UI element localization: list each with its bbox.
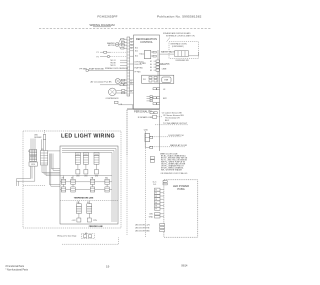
svg-text:P1: P1: [155, 190, 157, 192]
svg-text:* Non-functional Parts: * Non-functional Parts: [6, 268, 29, 271]
svg-text:Thermistor(s) OR: Thermistor(s) OR: [165, 117, 180, 120]
pcba top pins D1 D2: [153, 181, 167, 186]
temperature line pair P22: [90, 179, 109, 184]
header separator dashed rule: [39, 28, 211, 30]
svg-text:DISPENSER SW: DISPENSER SW: [176, 60, 189, 62]
svg-text:FRESH FOOD SENSOR: FRESH FOOD SENSOR: [105, 68, 128, 70]
svg-text:BK-2: BK-2: [165, 120, 169, 122]
line voltage wire row: [115, 101, 134, 109]
air circulation fan M2: [91, 79, 128, 84]
svg-text:# Functional Parts: # Functional Parts: [6, 265, 25, 268]
speaker and display pointer note: [163, 32, 195, 42]
svg-text:19: 19: [106, 265, 110, 269]
svg-text:EVAP SENS BK: EVAP SENS BK: [89, 67, 105, 70]
svg-text:B10: B10: [135, 47, 138, 49]
cabinet door dashed divider: [126, 110, 128, 235]
svg-text:P1: P1: [97, 52, 99, 54]
door switch net: [145, 133, 184, 141]
svg-text:P2: P2: [97, 56, 99, 58]
personality board U3: [127, 110, 163, 155]
header wiring diagram title: [89, 23, 115, 27]
water outlet dashed net: [155, 122, 188, 125]
svg-text:On Cabinet Sensors BK: On Cabinet Sensors BK: [162, 111, 183, 114]
connector strip J2 pins: [127, 79, 134, 94]
wire harness damper motor to connector J1: [118, 38, 127, 49]
board internal stub pins: [147, 96, 160, 105]
cabinet thermistor labels: [150, 111, 184, 122]
svg-text:PERSONALITY: PERSONALITY: [134, 110, 152, 114]
footer functional parts note: [6, 265, 29, 271]
freezer module top stubs: [79, 201, 89, 204]
svg-text:CONTROL: CONTROL: [140, 40, 153, 44]
svg-text:DOOR SWITCH: DOOR SWITCH: [168, 135, 184, 137]
svg-text:DRIVER: DRIVER: [34, 137, 42, 139]
svg-text:EMI: EMI: [165, 80, 169, 82]
svg-text:TH1 GY: TH1 GY: [110, 60, 117, 62]
svg-text:FGHS2655PF: FGHS2655PF: [97, 15, 117, 19]
svg-text:B4: B4: [150, 64, 152, 66]
connector labels: [28, 149, 44, 153]
wire color legend notes: [150, 153, 188, 171]
led driver A1: [34, 130, 46, 139]
connector P11 striped: [29, 150, 37, 167]
svg-text:B14: B14: [135, 55, 138, 57]
freezer module labels: [77, 202, 89, 204]
svg-text:WATER AT DOOR: WATER AT DOOR: [170, 144, 188, 147]
svg-text:ON FREEZER DOOR PCBA LED: ON FREEZER DOOR PCBA LED: [161, 172, 188, 175]
svg-text:WH - W/ WHITE TRACER: WH - W/ WHITE TRACER: [161, 168, 183, 171]
led board inner box: [60, 146, 118, 224]
bottom page dashed separator: [62, 237, 119, 244]
evaporator fan wire row: [100, 84, 127, 86]
svg-text:YL: YL: [130, 80, 132, 82]
svg-text:IF BOARD USED: IF BOARD USED: [138, 116, 155, 119]
refrigeration control board U1: [134, 35, 160, 109]
svg-text:LED DOOR RTN: LED DOOR RTN: [135, 228, 150, 230]
svg-text:SPEAKER AND DISPLAY BOARD: SPEAKER AND DISPLAY BOARD: [163, 32, 191, 35]
svg-text:B12: B12: [135, 50, 138, 52]
svg-text:BK: BK: [71, 178, 73, 180]
svg-text:COMPRESSOR: COMPRESSOR: [106, 98, 120, 100]
svg-text:SP01: SP01: [31, 164, 35, 166]
svg-text:Wiring on frz door hinge: Wiring on frz door hinge: [57, 236, 76, 238]
svg-text:P5: P5: [155, 202, 157, 204]
pair vertical stub wires: [64, 176, 108, 187]
led power pcba U4: [161, 172, 198, 237]
temperature line pair P23: [61, 187, 75, 192]
pcba mid pins: [149, 213, 164, 219]
defrost thermostat S1: [97, 51, 128, 54]
svg-text:LED: LED: [149, 213, 153, 215]
aux stub rows at strip: [110, 60, 127, 67]
led light wiring dashed enclosure: [23, 131, 121, 228]
freezer led module DL4: [72, 204, 82, 222]
svg-text:PCBA: PCBA: [177, 187, 185, 191]
svg-text:B8: B8: [150, 70, 152, 72]
temperature pair labels: [62, 178, 108, 180]
svg-text:TH3 PU: TH3 PU: [110, 65, 117, 67]
power input filter module FL1: [142, 75, 174, 83]
node U06 branch wires: [144, 129, 153, 148]
defrost heater wire: [97, 55, 128, 58]
svg-text:FF FAN: FF FAN: [135, 70, 142, 73]
connector P12 striped: [41, 151, 48, 166]
svg-text:TH2 BR: TH2 BR: [110, 62, 117, 64]
svg-text:P7: P7: [155, 209, 157, 211]
wires from connectors down to bus: [31, 151, 113, 186]
relay K1 inside control: [140, 50, 157, 58]
svg-text:TEMPERATURE LINE: TEMPERATURE LINE: [74, 197, 94, 200]
wire bundle driver to connectors: [31, 139, 46, 151]
compressor M3: [106, 88, 127, 100]
board inner edge wire: [157, 50, 159, 83]
damper motor M1: [107, 42, 119, 47]
led module DL3: [94, 153, 99, 178]
svg-text:GND: GND: [149, 216, 154, 218]
door harness connector P31: [57, 234, 96, 241]
svg-text:FF Sensor Harness WH: FF Sensor Harness WH: [164, 114, 185, 117]
svg-text:FREEZER LINE: FREEZER LINE: [89, 226, 104, 228]
svg-text:MOTOR: MOTOR: [108, 45, 115, 47]
temperature line pair P24: [90, 187, 109, 192]
cabinet boundary vertical below board: [159, 110, 161, 151]
svg-text:INTERFACE CONTROL (PART OF): INTERFACE CONTROL (PART OF): [166, 35, 195, 38]
svg-text:B2: B2: [150, 61, 152, 63]
pin row LF: [153, 88, 166, 91]
four terminal wire: [140, 63, 171, 66]
svg-text:Publication No. 5995581582: Publication No. 5995581582: [157, 14, 202, 18]
interface control dashed box U2: [169, 42, 199, 59]
svg-text:P2: P2: [155, 193, 157, 195]
pin row B22: [153, 97, 168, 100]
svg-text:TO THE WATER OUTLET: TO THE WATER OUTLET: [163, 122, 188, 125]
svg-text:LED LIGHT WIRING: LED LIGHT WIRING: [61, 133, 115, 139]
temperature line pair P21: [61, 179, 75, 184]
freezer led module DL5: [87, 204, 98, 222]
led module DL2: [83, 153, 88, 178]
svg-text:BK: BK: [105, 178, 107, 180]
svg-text:LED DOOR +12V: LED DOOR +12V: [135, 225, 151, 227]
pcba connector J5 pin column: [155, 188, 164, 211]
svg-text:09/14: 09/14: [181, 265, 188, 268]
svg-text:P3: P3: [155, 196, 157, 198]
svg-text:WIRING DIAGRAM: WIRING DIAGRAM: [89, 23, 115, 27]
water valve wire: [160, 51, 176, 55]
svg-text:LED DOOR GND: LED DOOR GND: [135, 231, 150, 233]
temperature freezer dashed separator: [60, 200, 118, 202]
svg-text:(DISPENSER): (DISPENSER): [172, 46, 184, 48]
svg-text:Air Circulation Fan BK: Air Circulation Fan BK: [91, 80, 113, 83]
svg-text:EVAP FAN: EVAP FAN: [135, 67, 144, 70]
temperature row stub wires: [60, 182, 112, 190]
connector strip J1 pins: [127, 37, 134, 96]
svg-text:P4: P4: [155, 199, 157, 201]
svg-text:P6: P6: [155, 206, 157, 208]
board internal pin rows right: [150, 60, 159, 72]
fresh food sensor wire: [80, 67, 134, 71]
line label wire: [160, 64, 168, 70]
svg-text:LINE: LINE: [162, 68, 167, 70]
bus wires exiting left: [17, 179, 35, 186]
control board bottom edge node: [127, 108, 160, 111]
pcba bottom input nets: [135, 224, 165, 233]
svg-text:D-1: D-1: [153, 184, 156, 186]
svg-text:WATER VALVE: WATER VALVE: [161, 51, 176, 54]
board internal net labels: [120, 61, 144, 106]
board internal text rows: [135, 47, 138, 57]
led module DL1: [75, 153, 80, 178]
water at door dashed net: [150, 144, 188, 147]
freezer section dashed divider: [145, 133, 147, 237]
svg-text:4 TER: 4 TER: [140, 63, 146, 65]
svg-text:B6: B6: [150, 67, 152, 69]
dispenser switch bank S2: [175, 51, 199, 62]
